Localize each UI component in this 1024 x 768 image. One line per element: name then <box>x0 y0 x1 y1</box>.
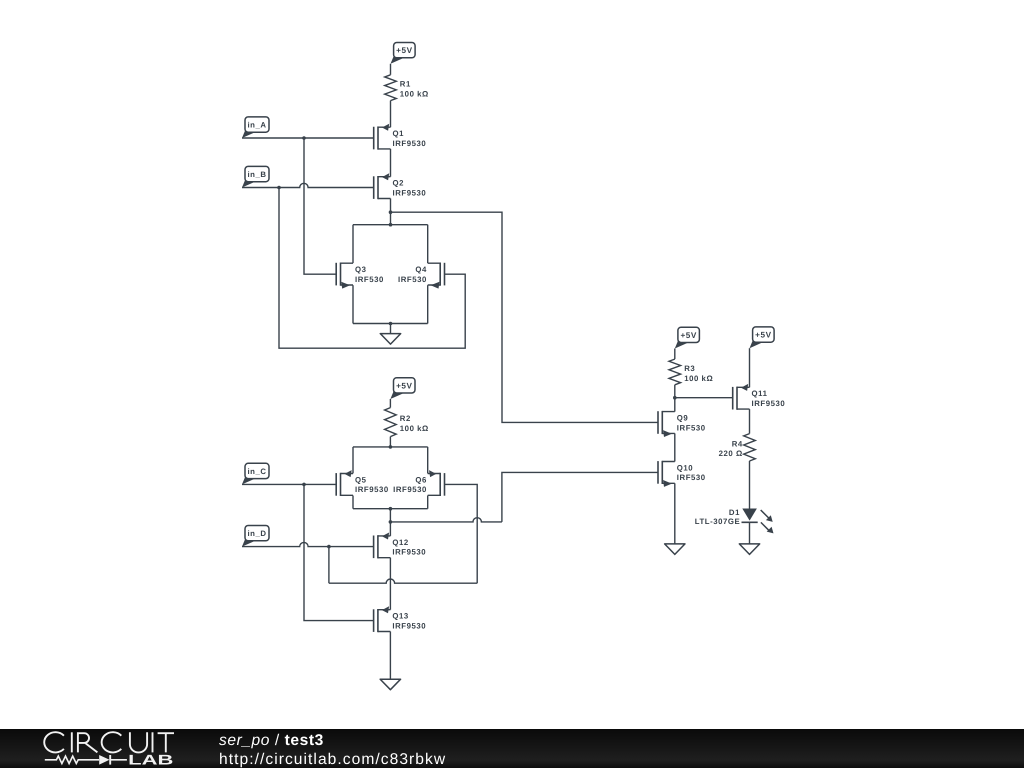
svg-text:R4: R4 <box>732 439 743 448</box>
svg-text:IRF530: IRF530 <box>677 473 706 482</box>
junction node in_B <box>277 186 281 190</box>
net flag in_D <box>242 538 254 546</box>
transistor Q2 channel bar <box>377 176 379 199</box>
transistor Q13 source arrow (PMOS) <box>382 606 389 613</box>
svg-text:D1: D1 <box>729 508 740 517</box>
wire to ground <box>390 324 392 334</box>
svg-text:in_B: in_B <box>247 170 266 179</box>
svg-text:Q1: Q1 <box>393 129 405 138</box>
svg-text:R3: R3 <box>684 364 695 373</box>
svg-text:IRF9530: IRF9530 <box>355 485 389 494</box>
D1 light emission arrows <box>761 510 770 531</box>
wire Q9 source to Q10 drain <box>674 433 676 461</box>
svg-text:in_C: in_C <box>247 467 266 476</box>
svg-text:IRF9530: IRF9530 <box>393 139 427 148</box>
junction node in_A <box>302 136 306 140</box>
svg-text:LAB: LAB <box>128 752 173 768</box>
wire right rail lower <box>427 285 429 323</box>
svg-text:100 kΩ: 100 kΩ <box>400 90 429 99</box>
wire right rail upper <box>427 447 429 474</box>
transistor Q3 channel bar <box>340 263 342 286</box>
transistor Q9 source arrow (NMOS) <box>663 430 672 437</box>
transistor Q6 gate bar <box>444 473 446 496</box>
wire in_D branch across (hop over Q12-Q13 line) <box>329 579 477 583</box>
footer bar <box>0 729 1024 768</box>
resistor R2 <box>385 408 397 437</box>
transistor Q10 channel bar <box>661 461 663 484</box>
wire Q10 source to ground <box>674 483 676 544</box>
transistor Q9 drain/source stubs <box>662 412 675 434</box>
junction node in_C <box>302 483 306 487</box>
wire in_C branch to Q13 gate <box>304 484 374 620</box>
wire D1 cathode to ground <box>749 522 751 544</box>
svg-text:http://circuitlab.com/c83rbkw: http://circuitlab.com/c83rbkw <box>219 751 446 768</box>
ground (Q13) <box>380 679 400 690</box>
svg-text:in_D: in_D <box>247 529 266 538</box>
svg-text:in_A: in_A <box>247 121 266 130</box>
svg-text:+5V: +5V <box>396 381 412 390</box>
wire Q11 drain to R4 <box>749 409 751 434</box>
wire pair2 bottom rail <box>353 508 428 510</box>
transistor Q13 drain/source stubs <box>378 610 391 632</box>
wire pair2 top rail <box>353 446 428 448</box>
svg-text:IRF9530: IRF9530 <box>392 548 426 557</box>
svg-text:Q2: Q2 <box>393 179 405 188</box>
svg-text:IRF530: IRF530 <box>355 275 384 284</box>
wire Q12 drain to Q13 source <box>389 558 391 610</box>
transistor Q5 source arrow (PMOS) <box>345 470 352 477</box>
wire Q2 drain down to pair node <box>390 199 392 225</box>
transistor Q1 source arrow (PMOS) <box>382 124 389 131</box>
net flag in_A <box>242 130 254 138</box>
wire +5V to R3 <box>674 349 676 360</box>
net flag in_C <box>242 476 254 484</box>
transistor Q4 channel bar <box>439 263 441 286</box>
wire in_D branch up to Q6 gate <box>444 484 477 583</box>
wire in_C to Q5 gate <box>242 483 337 485</box>
transistor Q10 source arrow (NMOS) <box>663 480 672 487</box>
svg-text:LTL-307GE: LTL-307GE <box>695 517 741 526</box>
transistor Q1 drain/source stubs <box>378 127 391 149</box>
wire in_D to Q12 gate (hop over in_C line) <box>242 542 374 546</box>
wire R4 to D1 anode <box>749 461 751 509</box>
resistor R3 <box>669 359 681 385</box>
wire left rail lower <box>352 285 354 323</box>
transistor Q11 gate bar <box>732 387 734 410</box>
transistor Q2 gate bar <box>373 176 375 199</box>
svg-text:Q13: Q13 <box>392 612 409 621</box>
transistor Q9 channel bar <box>661 411 663 434</box>
svg-text:Q4: Q4 <box>415 265 427 274</box>
wire in_A branch to Q3 gate <box>304 138 337 274</box>
transistor Q3 gate bar <box>335 263 337 286</box>
wire pair top rail <box>353 224 428 226</box>
wire +5V to R2 <box>389 399 391 408</box>
svg-text:ser_po / test3: ser_po / test3 <box>219 732 324 749</box>
power flag +5V <box>750 340 762 348</box>
transistor Q4 source arrow (NMOS) <box>431 282 440 289</box>
transistor Q9 gate bar <box>657 411 659 434</box>
svg-text:Q3: Q3 <box>355 265 367 274</box>
svg-text:+5V: +5V <box>680 331 696 340</box>
ground (D1) <box>739 544 759 555</box>
wire in_B branch to Q4 gate <box>279 188 465 349</box>
svg-text:Q12: Q12 <box>392 538 409 547</box>
transistor Q11 channel bar <box>736 387 738 410</box>
transistor Q10 gate bar <box>657 461 659 484</box>
svg-text:+5V: +5V <box>755 331 771 340</box>
junction node in_D <box>327 545 331 549</box>
wire left rail upper <box>352 447 354 474</box>
wire in_B to Q2 gate (hop over in_A line) <box>242 183 374 187</box>
wire +5V to R1 <box>390 64 392 75</box>
svg-text:R1: R1 <box>400 80 411 89</box>
wire to Q11 gate <box>675 397 733 399</box>
resistor R1 <box>385 75 397 101</box>
junction R2 / pair top <box>389 445 393 449</box>
ground (Q10) <box>665 544 685 555</box>
wire R3 to Q9 drain <box>674 385 676 412</box>
svg-text:100 kΩ: 100 kΩ <box>400 424 429 433</box>
transistor Q4 gate bar <box>444 263 446 286</box>
svg-text:IRF9530: IRF9530 <box>392 621 426 630</box>
svg-text:R2: R2 <box>400 414 411 423</box>
transistor Q5 drain/source stubs <box>341 474 354 496</box>
transistor Q11 source arrow (PMOS) <box>741 384 748 391</box>
transistor Q13 gate bar <box>373 609 375 632</box>
logo resistor doodle <box>45 756 99 763</box>
wire left rail upper <box>352 225 354 263</box>
junction R3 / Q11 gate <box>673 396 677 400</box>
transistor Q6 drain/source stubs <box>428 474 441 496</box>
wire R1 to Q1 source <box>390 101 392 128</box>
svg-text:IRF9530: IRF9530 <box>752 399 786 408</box>
svg-text:IRF9530: IRF9530 <box>393 188 427 197</box>
junction pair top <box>389 223 393 227</box>
svg-text:IRF9530: IRF9530 <box>393 485 427 494</box>
junction Q2 drain / output A.B <box>389 210 393 214</box>
svg-text:+5V: +5V <box>396 46 412 55</box>
transistor Q5 channel bar <box>340 473 342 496</box>
transistor Q4 drain/source stubs <box>428 263 441 285</box>
svg-text:Q6: Q6 <box>415 475 427 484</box>
svg-text:Q10: Q10 <box>677 463 694 472</box>
transistor Q12 drain/source stubs <box>378 536 391 558</box>
wire NAND1 output to Q9 gate <box>391 212 659 422</box>
power flag +5V <box>391 56 403 64</box>
diode D1 LED <box>742 509 757 521</box>
transistor Q3 drain/source stubs <box>341 263 354 285</box>
transistor Q2 drain/source stubs <box>378 177 391 199</box>
wire Q13 drain to ground <box>389 632 391 680</box>
transistor Q6 source arrow (PMOS) <box>429 470 436 477</box>
wire right rail upper <box>427 225 429 263</box>
wire NAND2 output to Q10 gate <box>502 472 658 522</box>
ground (NAND1) <box>380 334 400 345</box>
svg-text:100 kΩ: 100 kΩ <box>684 374 713 383</box>
wire +5V to Q11 source <box>749 348 751 387</box>
transistor Q12 channel bar <box>377 535 379 558</box>
svg-text:Q9: Q9 <box>677 414 689 423</box>
resistor R4 <box>744 434 756 461</box>
svg-text:Q11: Q11 <box>752 389 768 398</box>
wire pair bottom rail <box>353 323 428 325</box>
svg-text:IRF530: IRF530 <box>398 275 427 284</box>
transistor Q13 channel bar <box>377 609 379 632</box>
junction pair bottom <box>389 322 393 326</box>
svg-text:Q5: Q5 <box>355 475 367 484</box>
svg-text:IRF530: IRF530 <box>677 423 706 432</box>
wire in_A to Q1 gate <box>242 137 374 139</box>
junction pair2 bottom <box>389 507 393 511</box>
transistor Q3 source arrow (NMOS) <box>341 282 350 289</box>
wire in_D branch down <box>328 547 330 584</box>
power flag +5V <box>675 340 687 348</box>
transistor Q1 channel bar <box>377 126 379 149</box>
wire R2 to pair node <box>389 437 391 447</box>
svg-text:220 Ω: 220 Ω <box>719 449 743 458</box>
transistor Q5 gate bar <box>335 473 337 496</box>
transistor Q11 drain/source stubs <box>737 387 750 409</box>
logo diode doodle <box>99 755 109 765</box>
wire pair2 to Q12 source <box>389 509 391 536</box>
wire left rail lower <box>352 496 354 509</box>
wire Q1 drain to Q2 source <box>390 149 392 177</box>
junction NAND2 output <box>389 520 393 524</box>
CircuitLab logo word CIRCUIT <box>44 732 64 752</box>
wire NAND2 output across (hop over Q6 gate line) <box>390 518 502 522</box>
transistor Q12 source arrow (PMOS) <box>382 533 389 540</box>
net flag in_B <box>242 179 254 187</box>
transistor Q2 source arrow (PMOS) <box>382 173 389 180</box>
wire right rail lower <box>427 496 429 509</box>
transistor Q12 gate bar <box>373 536 375 559</box>
transistor Q1 gate bar <box>373 127 375 150</box>
transistor Q10 drain/source stubs <box>662 462 675 484</box>
transistor Q6 channel bar <box>439 473 441 496</box>
power flag +5V <box>390 391 402 399</box>
